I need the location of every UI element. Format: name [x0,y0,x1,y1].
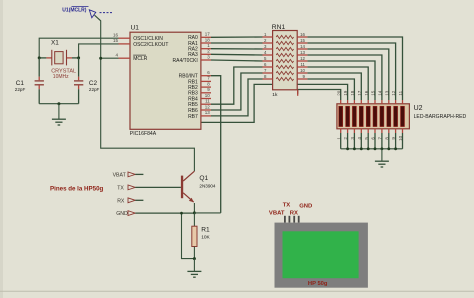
svg-text:TX: TX [117,185,124,191]
svg-text:22pF: 22pF [15,87,26,92]
wire RN1 pin10 to bargraph [307,73,361,100]
svg-text:11: 11 [398,90,403,95]
node: crystal left junction [38,56,41,59]
bargraph top pin stubs + numbers [340,100,342,104]
svg-text:10K: 10K [201,235,210,241]
svg-text:C1: C1 [16,80,25,87]
svg-text:PIC16F84A: PIC16F84A [130,131,157,137]
svg-text:TX: TX [283,203,291,209]
svg-text:14: 14 [378,90,383,96]
svg-text:R1: R1 [201,227,210,234]
svg-text:U1(MCLR): U1(MCLR) [62,7,86,13]
ground below C1/C2 [58,104,60,119]
wire RN1 pin15 to bargraph [307,43,395,100]
svg-text:19: 19 [343,90,348,96]
svg-text:X1: X1 [51,40,59,47]
svg-text:HP 50g: HP 50g [308,281,328,287]
RN1 resistor 6 [263,66,273,68]
U1 right pins RB [201,75,211,77]
svg-text:11: 11 [205,99,210,104]
LED bargraph U2 [337,104,410,129]
wire RA0 to RN1 pin1 [211,36,263,38]
wire: MCLR net from terminal down, over to transistor collector [95,15,195,171]
terminal TX [128,185,135,190]
wire: OSC2 rail [79,44,119,58]
bargraph segment at 340.7 [339,106,343,126]
svg-text:16: 16 [364,90,369,96]
wire RA4 to RN1 pin5 [211,60,263,61]
terminal VBAT [128,172,135,177]
resistor network RN1 [273,31,298,90]
sheet bottom border [0,290,474,292]
svg-text:RX: RX [117,198,125,204]
svg-text:C2: C2 [89,80,98,87]
bargraph cathode bus [341,148,403,150]
RN1 resistor 7 [263,72,273,74]
svg-text:12: 12 [300,56,305,61]
svg-text:MCLR: MCLR [133,56,148,62]
node: crystal right junction [77,56,80,59]
node below R1 [193,257,196,260]
svg-text:10: 10 [205,93,211,98]
svg-text:RA4/T0CKI: RA4/T0CKI [173,58,198,64]
resistor R1 [193,213,195,226]
crystal X1 [39,57,46,59]
RN1 resistor 5 [263,60,273,62]
U1 left pins [119,37,131,39]
svg-text:RB7: RB7 [188,114,198,120]
RN1 resistor 8 [263,78,273,80]
svg-text:OSC2/CLKOUT: OSC2/CLKOUT [133,42,168,48]
svg-text:17: 17 [205,32,211,37]
bargraph segment at 361.3 [359,106,363,126]
bargraph segment at 354.4 [352,106,356,126]
svg-text:GND: GND [116,211,128,217]
node: cap rail / ground stem junction [57,102,60,105]
HP50g header pins [284,216,286,223]
svg-text:10: 10 [300,68,305,73]
bargraph segment at 388.8 [387,106,391,126]
svg-text:13: 13 [205,110,211,115]
terminal GND [128,211,135,216]
wire RB7 to RN1 pin8 [211,79,263,116]
ground below R1 [193,259,195,272]
terminal (default) at MCLR net [89,10,96,18]
svg-text:13: 13 [300,50,305,55]
svg-text:2N3904: 2N3904 [199,184,216,189]
wire RB0 down to emitter node [211,76,221,213]
svg-text:Q1: Q1 [199,175,208,182]
ground below bargraph [381,149,383,161]
wire: cap bottom rail [39,103,78,105]
bargraph segment at 375.0 [373,106,377,126]
svg-text:11: 11 [300,62,305,67]
bargraph segment at 395.6 [394,106,398,126]
microcontroller U1 PIC16F84A [130,32,201,129]
wire hidden-pin row to bargraph pin19 (snake) [202,84,348,122]
svg-text:RN1: RN1 [272,24,286,31]
svg-text:VBAT: VBAT [269,210,285,216]
capacitor C1 [38,58,40,77]
svg-text:14: 14 [300,44,305,49]
wire RA1 to RN1 pin2 [211,42,263,44]
wire RB6 to RN1 pin7 [211,73,263,110]
HP50g screen [283,231,359,278]
svg-text:20: 20 [336,90,341,96]
wire RN1 pin11 to bargraph [307,67,368,100]
overline on MCLR [133,54,146,56]
RN1 resistor 4 [263,54,273,56]
svg-text:16: 16 [113,32,119,37]
svg-text:12: 12 [205,104,211,109]
capacitor C2 [78,58,80,77]
wire RN1 pin13 to bargraph [307,55,382,100]
bargraph bottom pins, numbers, wires to bus [340,129,342,133]
terminal RX [128,198,135,203]
svg-text:VBAT: VBAT [113,172,127,178]
HP50g case [275,223,368,288]
RN1 resistor 1 [263,36,273,38]
svg-text:Pines de la HP50g: Pines de la HP50g [50,185,104,192]
svg-text:22pF: 22pF [89,87,100,92]
svg-text:LED-BARGRAPH-RED: LED-BARGRAPH-RED [414,114,467,120]
U1 right pins RA [201,36,211,38]
RN1 resistor 3 [263,48,273,50]
RN1 resistor 2 [263,42,273,44]
svg-text:1k: 1k [272,92,278,98]
svg-text:18: 18 [350,90,355,96]
svg-text:GND: GND [299,203,312,209]
wire emitter node to RB0 riser [194,212,220,214]
wire RN1 common to bargraph pin20 [298,90,341,101]
wire RB5 to RN1 pin6 [211,67,263,104]
svg-text:RX: RX [290,210,298,216]
svg-text:15: 15 [371,90,376,96]
wire RN1 pin9 to bargraph [307,79,354,100]
svg-text:10MHz: 10MHz [53,74,69,80]
svg-text:U2: U2 [414,105,423,112]
bargraph segment at 347.6 [346,106,350,126]
svg-text:15: 15 [113,38,119,43]
node: emitter junction [193,211,196,214]
wire gnd branch down [182,213,195,259]
svg-text:18: 18 [205,37,211,42]
transistor Q1 2N3904 [181,176,183,199]
wire: MCLR pin wire [101,57,119,59]
wire: OSC1 rail [39,38,118,58]
svg-text:13: 13 [384,90,389,96]
bargraph segment at 402.5 [401,106,405,126]
bargraph segment at 368.2 [366,106,370,126]
wire RN1 pin12 to bargraph [307,61,375,100]
svg-text:16: 16 [300,32,305,37]
wire RN1 pin16 to bargraph [307,37,402,100]
svg-text:12: 12 [391,90,396,96]
wire RN1 pin14 to bargraph [307,49,388,100]
dashed stub right of terminal [100,12,113,14]
svg-text:U1: U1 [131,25,140,32]
bargraph segment at 381.9 [380,106,384,126]
wire RA3 to RN1 pin4 [211,53,263,56]
wire RA2 to RN1 pin3 [211,48,263,50]
svg-text:15: 15 [300,38,305,43]
junction at MCLR column [99,57,102,60]
svg-text:17: 17 [357,90,362,96]
